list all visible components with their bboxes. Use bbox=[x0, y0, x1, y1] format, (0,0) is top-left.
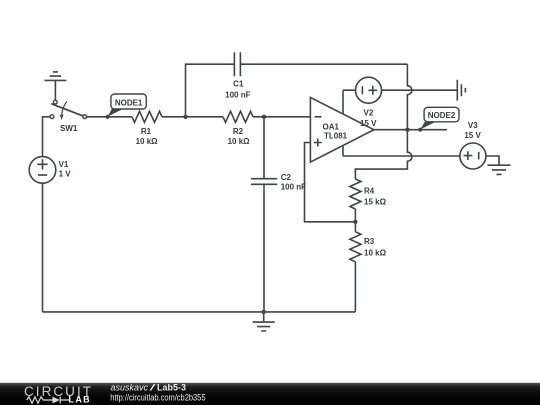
svg-text:NODE2: NODE2 bbox=[428, 111, 456, 120]
junction (output node) bbox=[405, 128, 409, 132]
ground (top left, pointing up) bbox=[44, 72, 66, 100]
voltage source V2 bbox=[356, 77, 382, 128]
junction (R4/R3 tap) bbox=[353, 220, 357, 224]
svg-text:asuskavc: asuskavc bbox=[111, 383, 149, 393]
svg-text:15 V: 15 V bbox=[360, 119, 377, 128]
node NODE1 flag bbox=[106, 94, 147, 119]
svg-text:1 V: 1 V bbox=[59, 170, 72, 179]
svg-text:V3: V3 bbox=[468, 121, 478, 130]
capacitor C2 bbox=[251, 173, 306, 192]
voltage source V3 bbox=[460, 121, 486, 169]
junction (feedback tap) bbox=[183, 115, 187, 119]
ground (right of V3) bbox=[488, 165, 511, 174]
wire feedback column with hops bbox=[355, 64, 412, 179]
svg-text:10 kΩ: 10 kΩ bbox=[364, 248, 387, 257]
wire R1 to R2 bbox=[162, 116, 223, 118]
wire V1 bottom down bbox=[42, 183, 44, 312]
wire R2 to op-amp inverting input bbox=[253, 116, 310, 118]
svg-text:10 kΩ: 10 kΩ bbox=[228, 137, 251, 146]
svg-text:R1: R1 bbox=[141, 127, 152, 136]
svg-text:15 V: 15 V bbox=[464, 131, 481, 140]
resistor R2 bbox=[223, 111, 253, 146]
footer bar bbox=[0, 383, 540, 405]
ground (bottom, pointing down) bbox=[253, 312, 275, 331]
op-amp OA1 TL081 bbox=[310, 97, 374, 162]
footer logo LAB bbox=[69, 395, 92, 405]
wire op-amp output bbox=[374, 129, 447, 131]
footer url text bbox=[110, 392, 205, 402]
voltage source V1 bbox=[29, 157, 71, 184]
svg-text:http://circuitlab.com/cb2b355: http://circuitlab.com/cb2b355 bbox=[110, 392, 205, 402]
resistor R3 bbox=[350, 232, 387, 262]
wire feedback up-left to C1 bbox=[186, 64, 235, 117]
wire C2 top stem bbox=[263, 117, 265, 179]
wire ground bus bbox=[43, 311, 356, 313]
wire C2 bottom stem bbox=[263, 184, 265, 312]
svg-text:C2: C2 bbox=[281, 173, 292, 182]
junction (ground tap) bbox=[262, 310, 266, 314]
svg-text:OA1: OA1 bbox=[323, 122, 340, 131]
footer title text bbox=[111, 383, 187, 393]
footer logo CIRCUIT bbox=[24, 384, 93, 399]
wire R4 to junction bbox=[354, 209, 356, 222]
wire V2 to ground bbox=[382, 89, 458, 91]
svg-text:R3: R3 bbox=[364, 237, 375, 246]
svg-text:V2: V2 bbox=[364, 109, 374, 118]
wire R3 to ground bus bbox=[354, 262, 356, 312]
svg-text:R2: R2 bbox=[233, 127, 244, 136]
wire V3 to ground bbox=[486, 156, 499, 165]
svg-text:15 kΩ: 15 kΩ bbox=[364, 198, 387, 207]
switch SW1 bbox=[50, 100, 87, 133]
svg-text:Lab5-3: Lab5-3 bbox=[157, 383, 186, 393]
junction (C2 tap) bbox=[262, 115, 266, 119]
svg-text:100 nF: 100 nF bbox=[225, 91, 250, 100]
footer logo mini schematic bbox=[27, 397, 69, 404]
wire op-amp V- pin to V3 bbox=[343, 146, 460, 156]
wire V1 top to SW1 bbox=[43, 117, 51, 157]
svg-text:R4: R4 bbox=[364, 187, 375, 196]
wire junction to R3 bbox=[354, 222, 356, 232]
wire C1 to output column bbox=[240, 63, 407, 65]
resistor R1 bbox=[132, 111, 162, 146]
svg-text:SW1: SW1 bbox=[60, 124, 78, 133]
svg-text:LAB: LAB bbox=[69, 395, 92, 405]
wire SW1 to R1 bbox=[87, 116, 132, 118]
svg-text:NODE1: NODE1 bbox=[115, 98, 143, 107]
svg-text:10 kΩ: 10 kΩ bbox=[136, 137, 159, 146]
svg-text:100 nF: 100 nF bbox=[281, 183, 306, 192]
wire op-amp V+ pin to V2 bbox=[343, 90, 356, 114]
svg-text:C1: C1 bbox=[233, 80, 244, 89]
capacitor C1 bbox=[225, 52, 250, 99]
wire non-inverting input loop bbox=[305, 143, 356, 222]
svg-text:V1: V1 bbox=[59, 160, 69, 169]
node NODE2 flag bbox=[418, 107, 459, 132]
ground (top right, sideways) bbox=[457, 80, 465, 101]
resistor R4 bbox=[350, 179, 387, 209]
svg-text:TL081: TL081 bbox=[324, 132, 348, 141]
